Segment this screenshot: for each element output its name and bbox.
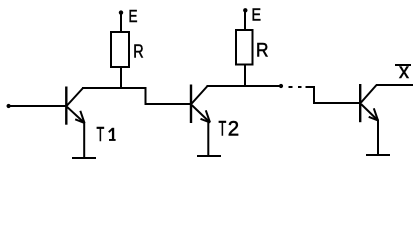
wire R2 top lead bbox=[244, 9, 246, 30]
transistor T3 bbox=[360, 84, 378, 122]
wire step vertical to T2 base bbox=[145, 87, 147, 104]
svg-text:E: E bbox=[129, 6, 138, 26]
transistor T2 bbox=[191, 85, 210, 124]
wire step vertical to T3 base bbox=[313, 86, 315, 102]
wire T2 collector horizontal bbox=[207, 85, 282, 87]
wire T1 emitter down bbox=[83, 122, 85, 158]
wire R1 top lead bbox=[120, 11, 122, 32]
node wire-end dot bbox=[279, 84, 283, 88]
wire input to T1 base bbox=[8, 105, 67, 107]
label T2 bbox=[219, 116, 240, 141]
resistor R2 bbox=[236, 30, 253, 65]
svg-text:x: x bbox=[399, 59, 409, 83]
wire R2 bottom lead bbox=[244, 64, 246, 86]
resistor R1 bbox=[111, 32, 129, 67]
wire T2 base horizontal bbox=[145, 103, 192, 105]
label x̄ output: overbar bbox=[395, 64, 411, 66]
node E2 terminal dot bbox=[243, 8, 247, 12]
svg-text:2: 2 bbox=[228, 116, 239, 141]
svg-text:T: T bbox=[219, 116, 227, 141]
label T1 bbox=[97, 123, 116, 146]
ground T1 bbox=[72, 157, 96, 159]
svg-text:R: R bbox=[133, 42, 143, 62]
transistor T1 bbox=[66, 87, 84, 125]
wire T3 base horizontal bbox=[313, 102, 360, 104]
wire stub after dots bbox=[306, 86, 316, 88]
wire dashed continuation dots bbox=[289, 86, 293, 88]
wire T2 emitter down bbox=[207, 122, 209, 157]
svg-text:E: E bbox=[252, 5, 262, 25]
wire T1 collector horizontal bbox=[82, 87, 147, 89]
wire T3 emitter down bbox=[377, 120, 379, 156]
node E1 terminal dot bbox=[119, 10, 123, 14]
ground T3 bbox=[366, 154, 390, 156]
ground T2 bbox=[197, 155, 221, 157]
svg-text:R: R bbox=[256, 41, 269, 62]
node input terminal dot bbox=[7, 104, 11, 108]
wire T3 collector horizontal (output) bbox=[376, 84, 413, 86]
svg-text:T: T bbox=[97, 123, 105, 146]
wire R1 bottom lead bbox=[120, 67, 122, 88]
